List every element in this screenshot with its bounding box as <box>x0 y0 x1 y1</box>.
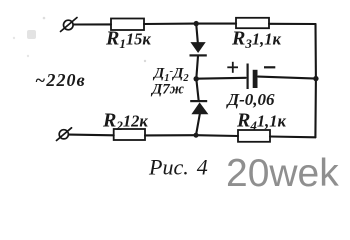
svg-text:Д-0,06: Д-0,06 <box>226 90 276 109</box>
wire D1 to node B <box>196 56 198 79</box>
wire right vertical <box>314 24 317 137</box>
wire R1 to node A <box>144 23 196 25</box>
terminal top-left <box>61 18 78 32</box>
svg-text:Д7ж: Д7ж <box>150 82 184 98</box>
svg-text:R212к: R212к <box>102 110 148 134</box>
node A junction dot <box>194 21 199 26</box>
wire R4 to node C <box>196 134 238 137</box>
wire R3 to top-right corner <box>269 23 316 25</box>
node B junction dot <box>194 76 199 81</box>
wire node B to battery <box>196 77 245 80</box>
wire battery to right node D <box>258 77 316 79</box>
wire node A to R3 <box>196 23 236 25</box>
svg-text:20wek: 20wek <box>226 152 339 195</box>
svg-text:R41,1к: R41,1к <box>236 110 286 134</box>
wire bottom-right corner to R4 <box>270 135 315 138</box>
node D junction dot <box>313 76 318 81</box>
resistor R3 <box>236 18 269 28</box>
diode D1 (cathode down) <box>190 42 207 56</box>
svg-text:R31,1к: R31,1к <box>231 28 281 52</box>
resistor R4 <box>238 130 270 142</box>
svg-text:R115к: R115к <box>105 28 151 52</box>
resistor R2 <box>114 129 145 140</box>
battery GB1 Д-0,06 <box>248 64 258 90</box>
wire R2 to terminal bottom-left <box>69 134 114 137</box>
svg-text:~220в: ~220в <box>35 70 86 90</box>
svg-text:Рис.4: Рис.4 <box>148 155 208 180</box>
wire node B down to D2 <box>196 79 198 101</box>
diode D2 (cathode up) <box>190 100 208 114</box>
terminal bottom-left <box>57 128 72 141</box>
battery plus sign <box>227 62 238 73</box>
wire node A down to D1 <box>196 24 198 43</box>
resistor R1 <box>111 19 144 31</box>
wire top-left to R1 <box>74 23 112 25</box>
wire D2 to node C <box>196 114 200 135</box>
node C junction dot <box>194 133 199 138</box>
wire node C to R2 <box>145 134 196 136</box>
battery minus sign <box>264 66 275 68</box>
